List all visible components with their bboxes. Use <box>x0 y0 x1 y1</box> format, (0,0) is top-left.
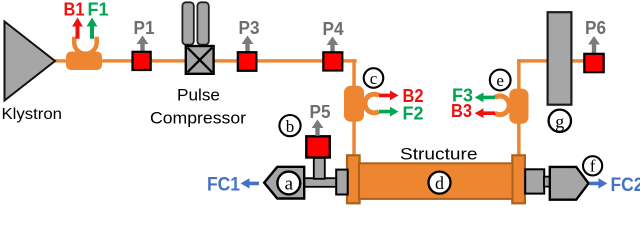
coupler 1 pickup loop <box>74 37 97 54</box>
arrow P1 (gray, up) <box>137 36 149 52</box>
svg-text:FC2: FC2 <box>611 175 640 196</box>
svg-text:FC1: FC1 <box>207 175 240 196</box>
svg-text:B1: B1 <box>64 0 85 20</box>
svg-text:Compressor: Compressor <box>150 110 247 128</box>
detector P4 square <box>323 52 342 70</box>
detector P1 square <box>133 52 151 70</box>
rf load body <box>548 12 572 105</box>
arrow FC2 (blue, right) <box>589 178 607 188</box>
P5 stub pipe <box>314 158 325 179</box>
beam pipe left <box>303 178 337 187</box>
arrow F2 (forward, green, right) <box>379 107 399 117</box>
svg-text:Klystron: Klystron <box>2 106 63 123</box>
svg-text:P5: P5 <box>310 102 331 122</box>
beam pipe right <box>544 177 551 187</box>
svg-text:d: d <box>435 173 444 193</box>
svg-text:F1: F1 <box>88 0 109 20</box>
svg-text:g: g <box>555 111 564 131</box>
coupler c body <box>344 86 364 122</box>
svg-text:a: a <box>285 174 294 195</box>
svg-text:b: b <box>286 117 295 136</box>
arrow P5 (gray, up) <box>312 120 324 136</box>
arrow F1 (forward, green, up) <box>87 18 98 39</box>
svg-text:P4: P4 <box>323 19 344 39</box>
node d circle <box>429 172 451 194</box>
gray block right of structure <box>525 169 544 193</box>
pulse compressor hybrid <box>186 46 214 74</box>
node a circle <box>277 172 300 195</box>
coupler e body <box>509 89 528 124</box>
pulse compressor cavity 2 <box>197 2 208 44</box>
wire: main waveguide horizontal run <box>54 59 357 62</box>
arrow P3 (gray, up) <box>242 36 254 52</box>
coupler c loop <box>365 94 379 113</box>
node b circle <box>279 115 300 136</box>
node f circle <box>583 156 602 175</box>
svg-text:e: e <box>496 71 504 90</box>
coupler e loop <box>495 96 509 115</box>
svg-text:F2: F2 <box>403 104 424 124</box>
directional coupler 1 body <box>66 52 102 71</box>
svg-text:c: c <box>370 69 378 88</box>
structure body <box>359 163 513 199</box>
arrow FC1 (blue, left) <box>241 178 259 188</box>
detector P3 square <box>238 52 257 71</box>
wire: right horizontal run to P6 through load <box>517 59 585 62</box>
faraday cup a pentagon <box>264 167 304 199</box>
node c circle <box>364 68 384 88</box>
arrow B3 (backward, red, left) <box>475 108 496 118</box>
gray block left of structure <box>336 170 348 195</box>
node e circle <box>490 70 511 91</box>
svg-text:P1: P1 <box>134 18 155 38</box>
pulse compressor cavity 1 <box>182 2 193 44</box>
wire: coupler c down to structure left flange <box>352 120 356 158</box>
svg-text:B3: B3 <box>451 101 472 121</box>
wire: coupler e down to structure right flange <box>517 122 521 158</box>
arrow B1 (backward, red, up) <box>72 18 83 39</box>
wire: vertical drop from P4 elbow to coupler c <box>352 59 356 87</box>
detector P6 square <box>584 54 603 72</box>
structure right flange <box>512 155 525 203</box>
svg-text:Structure: Structure <box>400 146 478 164</box>
faraday cup f pentagon <box>550 167 589 200</box>
svg-text:P3: P3 <box>239 18 260 38</box>
structure left flange <box>347 155 360 203</box>
node g circle <box>549 110 571 132</box>
svg-text:P6: P6 <box>585 18 606 38</box>
detector P5 square <box>306 136 330 157</box>
svg-text:f: f <box>590 157 596 176</box>
wire: elbow down to coupler e <box>517 59 521 90</box>
arrow P4 (gray, up) <box>327 37 339 52</box>
arrow P6 (gray, up) <box>588 36 600 53</box>
svg-text:Pulse: Pulse <box>177 87 220 105</box>
klystron body <box>5 22 56 101</box>
arrow B2 (backward, red, right) <box>379 91 399 101</box>
arrow F3 (forward, green, left) <box>475 93 496 103</box>
